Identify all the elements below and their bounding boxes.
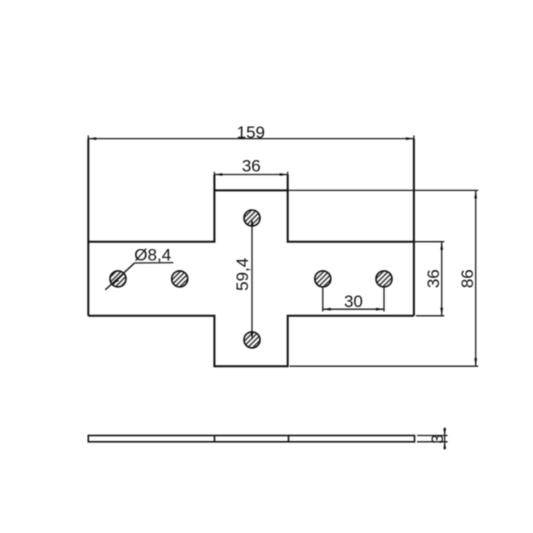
- svg-text:36: 36: [424, 269, 443, 288]
- svg-text:3: 3: [428, 434, 447, 443]
- svg-text:86: 86: [458, 269, 477, 288]
- svg-text:36: 36: [242, 157, 261, 176]
- svg-text:Ø8,4: Ø8,4: [134, 245, 171, 264]
- svg-text:159: 159: [237, 123, 265, 142]
- svg-text:30: 30: [344, 292, 363, 311]
- svg-text:59,4: 59,4: [233, 258, 252, 291]
